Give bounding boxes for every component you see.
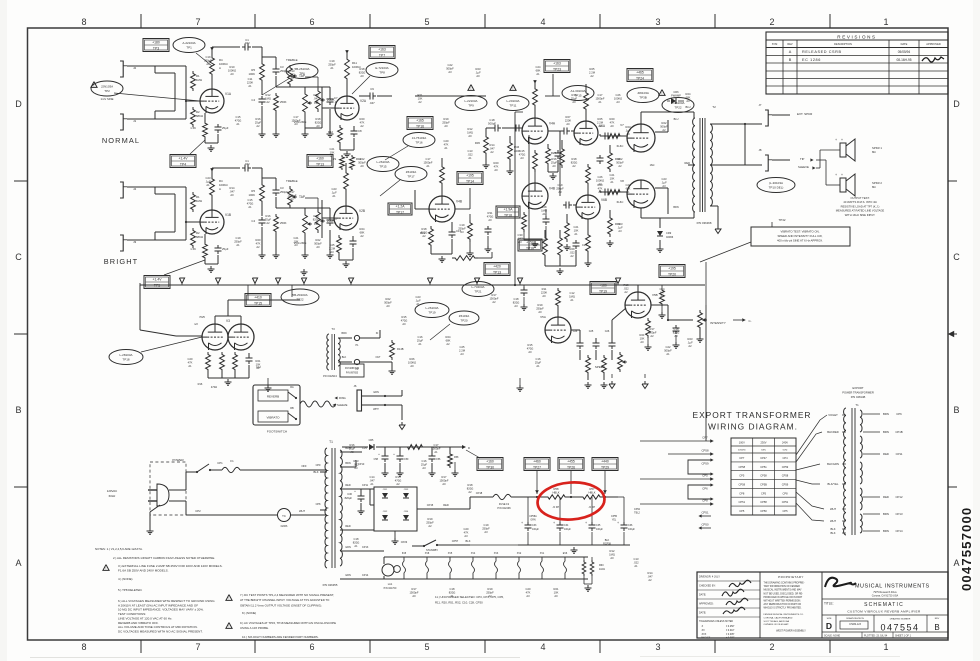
svg-text:C15: C15 <box>520 149 525 153</box>
svg-text:100V: 100V <box>739 441 745 445</box>
svg-text:RESISTIVE LOAD AT TP7 (K.J.): RESISTIVE LOAD AT TP7 (K.J.) <box>841 204 880 208</box>
svg-text:R22: R22 <box>662 121 667 125</box>
svg-text:T1: T1 <box>855 403 859 407</box>
svg-text:SLEEVE: SLEEVE <box>337 403 348 407</box>
bias coupling cluster <box>468 220 473 242</box>
svg-text:+195: +195 <box>466 173 474 177</box>
svg-text:500pF: 500pF <box>358 160 366 164</box>
svg-text:A0: A0 <box>566 122 570 126</box>
svg-text:± 0.005": ± 0.005" <box>726 634 735 636</box>
normal channel input callout ellipse TP2 <box>91 82 97 88</box>
svg-text:CP23: CP23 <box>401 540 408 544</box>
svg-text:EC 1286: EC 1286 <box>802 58 821 62</box>
svg-text:1500pF: 1500pF <box>595 96 604 100</box>
svg-text:0047557000: 0047557000 <box>959 507 974 591</box>
svg-text:1500pF: 1500pF <box>431 446 440 450</box>
svg-text:+465: +465 <box>636 70 644 74</box>
svg-text:250pF: 250pF <box>280 69 288 73</box>
warning callout ellipse TP9 <box>468 85 474 91</box>
svg-text:100KΩ: 100KΩ <box>596 178 604 182</box>
svg-text:RELEASED CSRB: RELEASED CSRB <box>802 50 842 54</box>
svg-text:A1: A1 <box>666 352 670 356</box>
svg-text:C13: C13 <box>290 69 295 73</box>
svg-text:A0: A0 <box>402 322 406 326</box>
svg-text:+: + <box>835 173 837 177</box>
svg-text:250K: 250K <box>327 219 335 223</box>
svg-text:A1: A1 <box>634 564 638 568</box>
svg-text:TP22: TP22 <box>296 298 304 302</box>
svg-text:C23: C23 <box>206 176 211 180</box>
svg-text:OBTAIN 11.2 Vrms OUTPUT VOLTAG: OBTAIN 11.2 Vrms OUTPUT VOLTAGE (ONSET O… <box>240 603 322 607</box>
svg-text:A2: A2 <box>396 482 400 486</box>
svg-text:C23: C23 <box>332 187 337 191</box>
svg-text:TP27: TP27 <box>533 465 541 469</box>
svg-text:FENDER MUSICAL INSTRUMENTS CO.: FENDER MUSICAL INSTRUMENTS CO. <box>764 613 805 616</box>
svg-text:L-26103A: L-26103A <box>425 306 438 310</box>
svg-text:5: 5 <box>424 17 429 27</box>
svg-text:A3: A3 <box>484 530 488 534</box>
svg-text:1/2: 1/2 <box>194 322 198 326</box>
callout box TP23 <box>544 60 570 73</box>
svg-text:+: + <box>521 521 523 525</box>
svg-text:E-72103A: E-72103A <box>375 66 388 70</box>
speaker 1 <box>840 143 846 157</box>
svg-text:CP15: CP15 <box>427 503 434 507</box>
svg-text:BLU: BLU <box>674 118 679 121</box>
svg-text:P/N 04814B: P/N 04814B <box>851 395 866 399</box>
svg-text:TP8: TP8 <box>379 71 385 75</box>
svg-text:02066: 02066 <box>281 525 288 528</box>
svg-text:.022: .022 <box>353 462 359 466</box>
OT snubber diode <box>659 218 661 228</box>
svg-text:TP18: TP18 <box>122 358 130 362</box>
svg-text:CHAM-123: CHAM-123 <box>849 623 861 626</box>
svg-text:C19: C19 <box>236 236 241 240</box>
svg-text:R18: R18 <box>316 117 321 121</box>
svg-text:P/N 022496: P/N 022496 <box>497 507 511 510</box>
svg-text:BLK: BLK <box>342 356 347 359</box>
svg-text:TP13: TP13 <box>493 270 501 274</box>
svg-text:6.) ALL VOLTAGES MEASURED WITH: 6.) ALL VOLTAGES MEASURED WITH RESPECT T… <box>118 599 215 603</box>
power tubes V7 V8 <box>627 124 655 152</box>
svg-text:CR2: CR2 <box>383 511 388 513</box>
svg-text:1MΩ: 1MΩ <box>609 552 615 556</box>
long vertical node wires <box>514 112 516 285</box>
svg-text:A3: A3 <box>514 304 518 308</box>
svg-text:R14: R14 <box>230 186 235 190</box>
svg-text:A2: A2 <box>418 100 422 104</box>
bridge rectifier CR1-CR4 <box>374 487 417 531</box>
svg-text:B: B <box>953 405 959 415</box>
svg-text:(L-30103A: (L-30103A <box>769 181 783 185</box>
svg-text:+1.4V: +1.4V <box>153 277 163 281</box>
svg-text:J1: J1 <box>133 119 137 123</box>
svg-text:R58: R58 <box>454 456 459 459</box>
svg-text:CP8: CP8 <box>782 491 788 495</box>
svg-text:TP30: TP30 <box>486 465 494 469</box>
svg-text:CP9: CP9 <box>316 464 321 467</box>
svg-text:CP58: CP58 <box>760 474 767 478</box>
svg-text:FUSE F2: FUSE F2 <box>499 503 510 506</box>
svg-text:470Ω: 470Ω <box>527 346 534 350</box>
svg-text:B: B <box>789 58 792 62</box>
rail callout box TP13b <box>484 263 510 276</box>
svg-text:+1.4V: +1.4V <box>179 156 189 160</box>
svg-text:CP58: CP58 <box>782 474 789 478</box>
svg-text:C13: C13 <box>634 557 639 561</box>
svg-text:A: A <box>219 187 221 191</box>
svg-text:R16: R16 <box>350 443 355 447</box>
svg-text:A1: A1 <box>418 342 422 346</box>
svg-text:RED: RED <box>883 495 889 499</box>
svg-text:C26: C26 <box>605 330 610 333</box>
svg-text:2.2M: 2.2M <box>459 348 466 352</box>
svg-text:DC VOLTAGES MEASURED WITH NO A: DC VOLTAGES MEASURED WITH NO AC SIGNAL P… <box>118 630 203 634</box>
svg-text:R12: R12 <box>266 93 271 97</box>
svg-text:A1: A1 <box>248 84 252 88</box>
svg-text:V2B: V2B <box>359 209 365 213</box>
svg-text:R15: R15 <box>396 475 401 479</box>
svg-text:CP5: CP5 <box>739 474 745 478</box>
svg-text:R23: R23 <box>476 67 481 71</box>
doghouse dropping resistors <box>493 494 511 499</box>
svg-text:1500pF: 1500pF <box>423 160 432 164</box>
svg-text:.047: .047 <box>647 574 653 578</box>
svg-text:R20: R20 <box>256 238 261 242</box>
svg-text:BRIGHT: BRIGHT <box>104 257 139 266</box>
svg-text:A3: A3 <box>520 156 524 160</box>
svg-text:R19: R19 <box>428 517 433 521</box>
svg-text:T1: T1 <box>329 440 333 444</box>
callout ellipse TP15c <box>562 86 594 101</box>
svg-text:TP13: TP13 <box>316 162 324 166</box>
svg-text:C19: C19 <box>460 223 465 227</box>
svg-text:OWNERS OF FILED ART.: OWNERS OF FILED ART. <box>764 623 790 626</box>
svg-text:A1: A1 <box>330 66 334 70</box>
svg-text:PROPRIETARY: PROPRIETARY <box>778 575 804 579</box>
svg-text:.022: .022 <box>244 41 250 45</box>
tremolo feed parts <box>660 288 665 306</box>
svg-text:V4A: V4A <box>549 122 556 126</box>
svg-text:TP19: TP19 <box>599 289 607 293</box>
footswitch box <box>253 385 300 425</box>
svg-text:A1: A1 <box>236 243 240 247</box>
svg-text:+163: +163 <box>553 61 561 65</box>
svg-text:PWAMP: PWAMP <box>671 93 681 97</box>
svg-text:220K: 220K <box>247 80 253 84</box>
svg-text:.1µF: .1µF <box>617 225 623 229</box>
svg-text:R26: R26 <box>410 357 415 361</box>
svg-text:.1µF: .1µF <box>415 298 421 302</box>
svg-text:R25: R25 <box>590 67 595 71</box>
svg-text:6L6C: 6L6C <box>617 200 624 204</box>
svg-text:P/N 022913: P/N 022913 <box>323 374 337 378</box>
svg-text:CR6: CR6 <box>673 90 679 94</box>
svg-text:SCHEMATIC: SCHEMATIC <box>864 602 904 608</box>
svg-text:A3: A3 <box>290 76 294 80</box>
svg-text:C22: C22 <box>666 345 671 349</box>
svg-text:TP14: TP14 <box>466 179 474 183</box>
svg-text:A: A <box>789 50 792 54</box>
svg-text:A1: A1 <box>574 232 578 236</box>
svg-text:470Ω: 470Ω <box>247 201 254 205</box>
svg-text:7: 7 <box>195 642 200 652</box>
svg-text:CR4: CR4 <box>404 511 409 513</box>
svg-text:RED: RED <box>443 503 449 507</box>
svg-text:A2: A2 <box>662 128 666 132</box>
svg-text:TARY INFORMATION OF FENDER: TARY INFORMATION OF FENDER <box>764 585 801 588</box>
svg-text:!: ! <box>513 87 514 91</box>
svg-text:BLK: BLK <box>830 527 835 531</box>
svg-text:RB: RB <box>290 407 294 410</box>
svg-text:A0: A0 <box>640 340 644 344</box>
svg-text:A0: A0 <box>386 304 390 308</box>
svg-text:TP22: TP22 <box>674 106 682 110</box>
svg-text:/2 FP: /2 FP <box>553 505 560 509</box>
svg-text:HBLK: HBLK <box>588 491 595 495</box>
svg-text:.1µF: .1µF <box>687 340 693 344</box>
HV filter cap C30 <box>360 493 362 496</box>
svg-text:SYM: SYM <box>772 42 778 46</box>
svg-text:CP59: CP59 <box>782 465 789 469</box>
svg-text:C16: C16 <box>536 357 541 361</box>
svg-text:5B-26103A: 5B-26103A <box>294 67 309 71</box>
svg-text:A1: A1 <box>206 183 210 187</box>
svg-text:CP58: CP58 <box>702 449 709 453</box>
svg-text:C20: C20 <box>526 587 531 591</box>
svg-text:TP16: TP16 <box>415 141 423 145</box>
svg-text:CP8: CP8 <box>739 491 745 495</box>
svg-text:WHOLE IS STRICTLY PROHIBITED.: WHOLE IS STRICTLY PROHIBITED. <box>764 608 802 610</box>
svg-text:CP7: CP7 <box>702 436 708 440</box>
svg-text:250pF: 250pF <box>486 590 494 594</box>
wires to OT <box>640 112 642 124</box>
svg-text:68K: 68K <box>686 95 691 99</box>
svg-text:J4: J4 <box>133 187 137 191</box>
svg-text:A0: A0 <box>410 364 414 368</box>
svg-text:R14: R14 <box>490 143 495 147</box>
svg-text:A0: A0 <box>316 245 320 249</box>
svg-text:A0: A0 <box>476 74 480 78</box>
svg-text:50Hz: 50Hz <box>783 450 788 452</box>
svg-text:TP18: TP18 <box>504 213 512 217</box>
svg-text:A: A <box>15 558 21 568</box>
svg-text:C23: C23 <box>662 177 667 181</box>
svg-text:IN: IN <box>376 332 379 335</box>
svg-text:PLOTTED: 23 JUL 94: PLOTTED: 23 JUL 94 <box>864 635 888 638</box>
svg-text:1.5K: 1.5K <box>190 126 196 130</box>
svg-text:A: A <box>219 66 221 70</box>
callout box TP17b <box>388 203 412 215</box>
svg-text:C4: C4 <box>251 98 255 102</box>
svg-text:500pF: 500pF <box>446 66 454 70</box>
svg-text:P/N 026355: P/N 026355 <box>323 583 338 587</box>
svg-text:A0: A0 <box>354 466 358 470</box>
scan artifact line <box>30 657 520 659</box>
svg-text:R18: R18 <box>572 157 577 161</box>
svg-text:CP51: CP51 <box>782 500 789 504</box>
svg-text:R16: R16 <box>256 117 261 121</box>
svg-text:CHECKED BY:: CHECKED BY: <box>699 585 716 588</box>
svg-text:OFF: OFF <box>301 464 307 468</box>
svg-text:2.2M: 2.2M <box>597 120 604 124</box>
svg-text:10K: 10K <box>294 239 299 243</box>
callout box TP30 <box>477 458 503 471</box>
svg-text:!: ! <box>662 92 663 96</box>
svg-text:R58: R58 <box>554 487 559 491</box>
svg-text:THIS DRAWING CONTAINS PROPRIE-: THIS DRAWING CONTAINS PROPRIE- <box>764 582 805 585</box>
svg-text:J7: J7 <box>759 103 762 107</box>
svg-text:D: D <box>15 99 22 109</box>
svg-text:LINE VOLTAGE AT 120.0 VAC AT 6: LINE VOLTAGE AT 120.0 VAC AT 60 Hz. <box>118 616 172 620</box>
svg-text:SLEEVE: SLEEVE <box>798 165 809 169</box>
svg-text:L-26103A: L-26103A <box>376 160 389 164</box>
svg-text:+: + <box>378 452 380 456</box>
svg-text:68K: 68K <box>626 186 631 190</box>
svg-text:C20: C20 <box>188 357 193 361</box>
svg-text:5.) TP8 DELETED.: 5.) TP8 DELETED. <box>118 588 143 592</box>
svg-text:USING A 10X PROBE.: USING A 10X PROBE. <box>240 626 269 630</box>
svg-text:4.) (NONE): 4.) (NONE) <box>118 577 132 581</box>
svg-text:A0: A0 <box>538 310 542 314</box>
svg-text:J2: J2 <box>133 66 137 70</box>
svg-text:R22: R22 <box>386 297 391 301</box>
svg-text:TOLERANCES UNLESS NOTED: TOLERANCES UNLESS NOTED <box>699 620 733 623</box>
svg-text:C17: C17 <box>426 157 431 161</box>
svg-text:C15: C15 <box>236 115 241 119</box>
svg-text:T3: T3 <box>331 327 335 331</box>
svg-text:WHT: WHT <box>830 519 836 523</box>
svg-text:A2: A2 <box>256 245 260 249</box>
svg-text:MEASURED AT RATED LINE VOLTAGE: MEASURED AT RATED LINE VOLTAGE <box>836 209 885 213</box>
svg-text:AT THE BRIGHT CHANNEL INPUT. V: AT THE BRIGHT CHANNEL INPUT. VOLTAGE AT … <box>240 598 330 602</box>
tremolo callout box TP19b <box>590 282 616 295</box>
reverb send tubes V3 <box>202 324 228 350</box>
svg-text:6: 6 <box>309 642 314 652</box>
svg-text:A0: A0 <box>626 132 630 136</box>
svg-text:A2: A2 <box>570 254 574 258</box>
svg-text:250pF: 250pF <box>328 62 336 66</box>
svg-text:6L6C: 6L6C <box>617 144 624 148</box>
svg-text:CP5: CP5 <box>739 509 745 513</box>
svg-text:8: 8 <box>81 17 86 27</box>
svg-text:CP8: CP8 <box>316 503 321 506</box>
svg-text:250K: 250K <box>280 100 287 104</box>
svg-text:A2: A2 <box>428 524 432 528</box>
svg-text:L-28103A: L-28103A <box>119 353 132 357</box>
svg-text:CP6: CP6 <box>702 487 708 491</box>
svg-text:D: D <box>953 99 960 109</box>
svg-text:DATE:: DATE: <box>699 594 706 597</box>
svg-text:TP15: TP15 <box>379 165 387 169</box>
vibrato tube V4A lower half <box>522 183 548 209</box>
svg-text:820Ω: 820Ω <box>449 590 456 594</box>
svg-text:P/N 897655: P/N 897655 <box>346 373 359 375</box>
svg-text:A1: A1 <box>542 212 546 216</box>
svg-text:V6B: V6B <box>601 198 607 202</box>
svg-text:3: 3 <box>655 17 660 27</box>
extra wires midband <box>559 150 561 196</box>
svg-text:C17: C17 <box>434 443 439 447</box>
svg-text:R17: R17 <box>492 293 497 297</box>
svg-text:68KΩ: 68KΩ <box>196 114 203 118</box>
svg-text:.1µF: .1µF <box>205 179 211 183</box>
svg-text:R27: R27 <box>566 115 571 119</box>
export voltage table <box>731 438 796 515</box>
svg-text:25µF: 25µF <box>265 217 272 221</box>
svg-text:A1: A1 <box>450 594 454 598</box>
callout box TP13 <box>307 155 333 168</box>
doghouse filter caps <box>527 497 529 522</box>
mixer stage V2A <box>335 96 359 120</box>
svg-text:+163: +163 <box>378 47 386 51</box>
svg-text:.1µF: .1µF <box>661 180 667 184</box>
svg-text:R12: R12 <box>468 127 473 131</box>
svg-text:A2: A2 <box>488 594 492 598</box>
rail callout ellipse <box>462 282 494 297</box>
svg-text:RED: RED <box>685 161 691 165</box>
svg-text:MUSICAL INSTRUMENTS: MUSICAL INSTRUMENTS <box>855 584 930 590</box>
svg-text:9.) AC VOLTAGES AT TP15, TP18: 9.) AC VOLTAGES AT TP15, TP18 MEASURED W… <box>240 621 336 625</box>
svg-text:C30: C30 <box>518 233 523 237</box>
svg-text:A0: A0 <box>554 594 558 598</box>
svg-text:100KΩ: 100KΩ <box>408 360 416 364</box>
normal channel preamp V1A <box>200 89 224 113</box>
svg-text:CP7: CP7 <box>739 456 745 460</box>
svg-text:R20: R20 <box>494 161 499 165</box>
svg-text:R22: R22 <box>360 157 365 161</box>
svg-text:C21: C21 <box>294 236 299 240</box>
svg-text:10K: 10K <box>610 176 615 180</box>
svg-text:+: + <box>617 521 619 525</box>
svg-text:V2A: V2A <box>360 99 367 103</box>
svg-text:BLU: BLU <box>685 105 690 109</box>
warning callout ellipse TP11 <box>510 85 516 91</box>
power rail extra grounds <box>454 470 456 473</box>
thermal cutout and neutral wire <box>186 514 277 516</box>
svg-text:R17: R17 <box>650 327 655 331</box>
svg-text:CP4: CP4 <box>782 456 788 460</box>
svg-text:C21: C21 <box>574 225 579 229</box>
svg-text:BRN: BRN <box>883 430 889 434</box>
svg-text:2.2M: 2.2M <box>329 246 336 250</box>
svg-text:+1.2A: +1.2A <box>396 204 406 208</box>
svg-text:CP59: CP59 <box>702 462 709 466</box>
svg-text:INTENSITY: INTENSITY <box>710 321 726 325</box>
svg-text:TP2: TP2 <box>104 89 110 93</box>
svg-text:68K: 68K <box>536 68 541 72</box>
svg-text:100µF: 100µF <box>596 528 603 531</box>
svg-text:V4B: V4B <box>549 187 555 191</box>
svg-text:1500pF: 1500pF <box>439 478 448 482</box>
svg-text:5B-Z0103A: 5B-Z0103A <box>292 293 307 297</box>
svg-text:TP1: TP1 <box>186 46 192 50</box>
svg-text:C8: C8 <box>358 129 362 133</box>
svg-text:10K: 10K <box>418 96 423 100</box>
svg-text:TP21: TP21 <box>474 290 482 294</box>
svg-text:R19: R19 <box>444 117 449 121</box>
svg-text:A3: A3 <box>662 184 666 188</box>
V6 coupling caps to power tubes <box>602 135 605 137</box>
svg-text:250K: 250K <box>327 98 335 102</box>
power switch gang dashes <box>150 462 186 515</box>
svg-text:!: ! <box>106 567 107 571</box>
svg-text:A1: A1 <box>598 100 602 104</box>
svg-text:GRN: GRN <box>345 546 351 549</box>
svg-text:C12: C12 <box>570 291 575 295</box>
svg-text:+: + <box>835 138 837 142</box>
svg-text:470Ω: 470Ω <box>487 214 494 218</box>
